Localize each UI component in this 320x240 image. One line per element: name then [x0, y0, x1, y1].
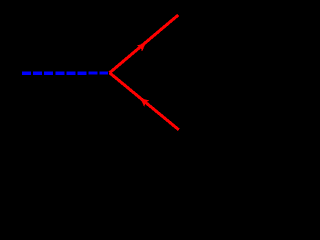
fermion line lower (red) [110, 73, 179, 130]
arrow on upper fermion line [137, 43, 146, 52]
fermion line upper (red) [110, 15, 179, 73]
boson line (blue dashed) [22, 71, 108, 74]
arrow on lower fermion line [140, 98, 149, 107]
